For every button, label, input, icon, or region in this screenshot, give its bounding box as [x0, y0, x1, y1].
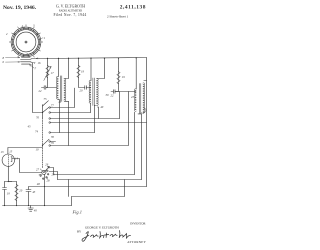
xfmr2 taps: [89, 104, 91, 113]
capacitor 19: [3, 182, 7, 206]
xfmr1 primary top lead: [58, 58, 60, 76]
svg-text:19: 19: [81, 70, 85, 74]
wire stack to bus: [31, 58, 39, 60]
svg-text:77: 77: [51, 104, 55, 108]
svg-text:17: 17: [51, 71, 55, 75]
resistor 17: [46, 66, 49, 78]
svg-text:Filed Nov. 7, 1944: Filed Nov. 7, 1944: [53, 13, 86, 18]
svg-text:1: 1: [44, 36, 46, 40]
wire arrowhead lower: [34, 62, 36, 64]
contact stack plates: [21, 57, 32, 64]
svg-text:INVENTOR: INVENTOR: [130, 222, 145, 226]
bottom node dots: [4, 181, 29, 206]
disc ring hatching: [12, 28, 41, 57]
xfmr1 secondary coil: [64, 78, 66, 101]
wire h176: [54, 174, 135, 176]
xfmr3 core: [138, 84, 140, 114]
svg-text:21: 21: [59, 100, 63, 104]
svg-text:48: 48: [37, 182, 41, 186]
rc node wire: [5, 181, 17, 183]
wire h114: [51, 118, 120, 120]
xfmr3 secondary coil: [143, 83, 145, 113]
top bus: [39, 58, 147, 59]
svg-text:28: 28: [47, 179, 51, 183]
ground 40: [28, 206, 33, 212]
xfmr3 secondary top jog to right bus: [144, 80, 147, 82]
wire h103: [51, 88, 75, 108]
svg-text:7: 7: [35, 67, 37, 71]
svg-text:26: 26: [45, 163, 49, 167]
svg-text:20: 20: [80, 89, 84, 93]
wire cap to xfmr3 primary: [115, 91, 136, 93]
wire cap20 to xfmr2: [86, 87, 90, 89]
svg-text:2: 2: [6, 32, 8, 36]
resistor 20: [16, 182, 18, 185]
svg-text:74: 74: [35, 129, 39, 133]
svg-text:8: 8: [3, 56, 5, 60]
xfmr2 core: [92, 78, 94, 106]
tube plate lead: [12, 159, 42, 173]
wire h144: [51, 92, 129, 146]
stage3 input drop: [119, 92, 121, 119]
svg-text:23: 23: [131, 95, 135, 99]
resistor 17 variable arrow: [44, 67, 51, 81]
svg-text:2 Sheets-Sheet 1: 2 Sheets-Sheet 1: [107, 15, 129, 19]
svg-text:19: 19: [122, 75, 126, 79]
capacitor 22: [41, 86, 45, 90]
svg-text:RADIO ALTIMETER: RADIO ALTIMETER: [59, 10, 82, 13]
tube cathode lead: [8, 166, 12, 181]
rotary stubs: [48, 168, 53, 175]
capacitor 20: [85, 86, 87, 90]
switch blade 1: [42, 112, 43, 113]
wire h130: [51, 132, 95, 134]
switch blade 0: [43, 101, 49, 106]
xfmr3 primary coil: [134, 89, 136, 111]
svg-text:Nov. 19, 1946.: Nov. 19, 1946.: [3, 5, 37, 11]
wire h140 stub: [51, 141, 56, 143]
resistor 19 lead: [78, 58, 80, 65]
svg-text:22: 22: [111, 94, 115, 98]
wire h180: [58, 179, 142, 181]
signature: [82, 231, 131, 242]
svg-text:39: 39: [106, 93, 110, 97]
svg-text:Fig.1: Fig.1: [72, 210, 82, 215]
svg-text:16: 16: [38, 61, 42, 65]
right bus drop: [146, 58, 148, 187]
svg-text:10: 10: [36, 148, 40, 152]
svg-text:BY: BY: [77, 230, 82, 234]
xfmr1 core: [59, 76, 61, 102]
svg-text:40: 40: [100, 105, 104, 109]
vert 67.9: [68, 180, 70, 197]
svg-text:22: 22: [39, 89, 43, 93]
svg-text:ATTORNEY: ATTORNEY: [127, 240, 146, 244]
svg-text:13: 13: [1, 150, 5, 154]
svg-text:45: 45: [28, 125, 32, 129]
xfmr1 secondary top lead: [65, 58, 69, 78]
svg-text:19: 19: [7, 192, 11, 196]
svg-text:76: 76: [36, 116, 40, 120]
svg-text:GEORGE V. ELTGROTH: GEORGE V. ELTGROTH: [85, 225, 119, 229]
resistor 39: [117, 72, 120, 84]
bottom bus: [3, 205, 72, 207]
svg-text:G. V. ELTGROTH: G. V. ELTGROTH: [56, 5, 85, 9]
wire stack lower: [31, 63, 43, 113]
xfmr2 secondary coil: [96, 78, 98, 105]
resistor 39 bottom lead: [115, 84, 119, 92]
wire h196: [72, 180, 125, 197]
tube grid top lead: [8, 148, 43, 155]
svg-text:79: 79: [51, 141, 55, 145]
xfmr3 secondary curl 24: [143, 108, 146, 112]
xfmr3 primary top lead: [135, 58, 137, 89]
wire h108: [51, 112, 91, 114]
svg-text:3: 3: [33, 24, 35, 28]
xfmr2 primary top lead: [90, 58, 92, 80]
svg-text:43: 43: [32, 190, 36, 194]
column wire: [42, 105, 44, 119]
resistor 39 lead: [118, 58, 120, 72]
resistor 17 bottom lead: [46, 78, 48, 88]
svg-text:6: 6: [3, 60, 5, 64]
xfmr3 taps: [134, 112, 136, 174]
capacitor 42: [111, 90, 115, 94]
condenser disc 1: [9, 25, 43, 57]
bus right upturn: [71, 197, 73, 206]
svg-text:2,411,138: 2,411,138: [120, 5, 146, 11]
wire h186: [29, 186, 147, 188]
xfmr2 primary coil: [89, 80, 91, 103]
svg-text:75: 75: [44, 97, 48, 101]
xfmr2 secondary top lead: [97, 58, 104, 78]
wire h119: [51, 122, 147, 124]
xfmr1 primary bottom tap: [58, 100, 60, 133]
svg-text:78: 78: [51, 135, 55, 139]
xfmr1 secondary bottom tap: [64, 101, 68, 145]
resistor 17 lead: [47, 58, 49, 65]
bus junction dots: [47, 57, 137, 59]
wire cap22 to xfmr1 primary: [46, 87, 57, 89]
svg-text:15: 15: [9, 150, 13, 154]
svg-text:20: 20: [19, 189, 23, 193]
resistor 19: [77, 66, 80, 78]
wire arrowhead: [36, 58, 38, 59]
svg-text:40: 40: [34, 209, 38, 213]
resistor 19 bottom lead: [79, 78, 85, 88]
switch blade 2: [42, 145, 43, 146]
disc segment bumps: [14, 29, 38, 35]
xfmr1 primary coil: [56, 76, 58, 99]
svg-text:27: 27: [36, 168, 40, 172]
rotary down wire: [44, 175, 46, 206]
capacitor 43: [26, 187, 31, 206]
